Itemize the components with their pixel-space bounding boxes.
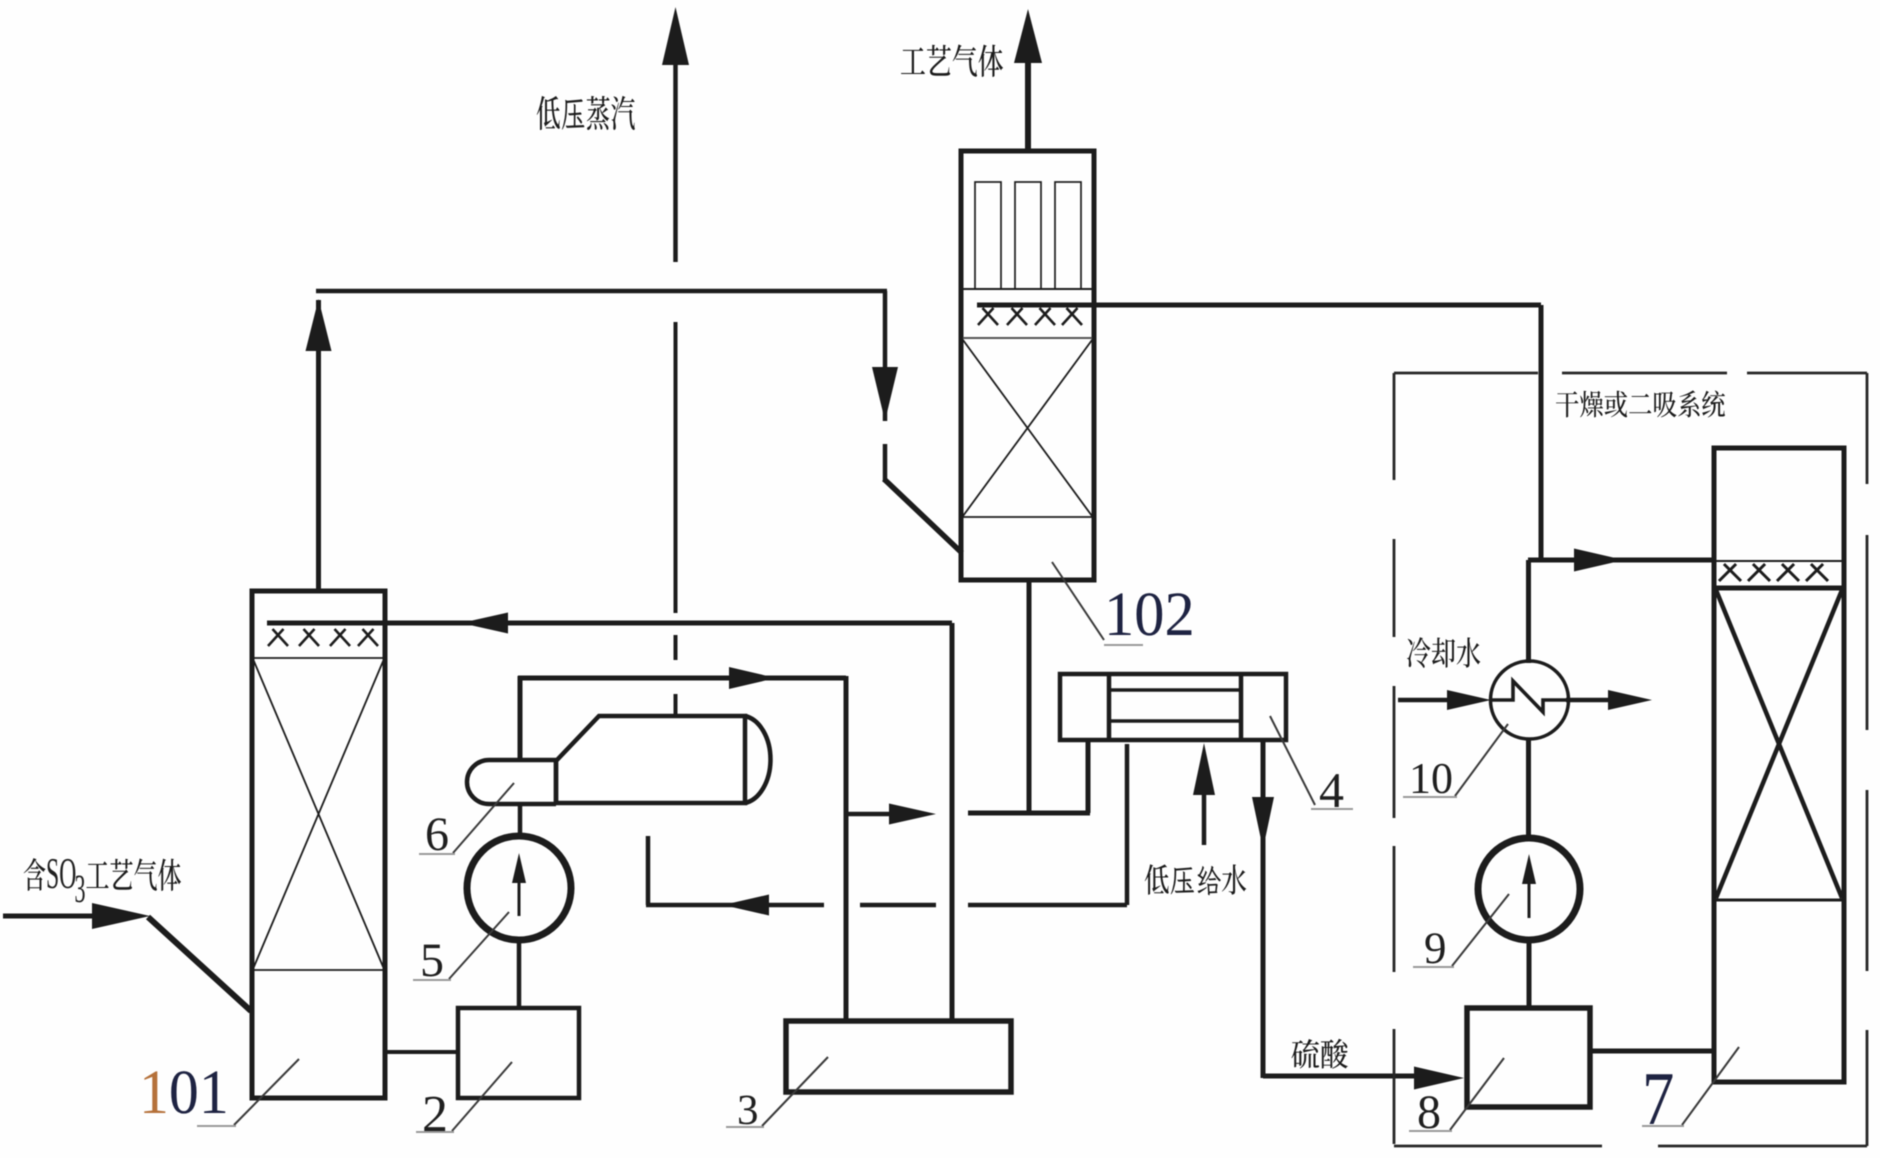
pump 9 arrow (1528, 882, 1531, 918)
tank 3 vessel (786, 1021, 1011, 1092)
wire 102 inlet arrowhead (872, 367, 898, 421)
label 5 leader (449, 912, 509, 979)
feed gas line (3, 914, 96, 919)
blower 6 dome (745, 716, 770, 803)
text 低压蒸汽 (537, 96, 560, 130)
pump 5 arrow (518, 880, 521, 916)
tower 101 packing X (253, 659, 384, 969)
tower 102 vessel (961, 151, 1094, 580)
cooling water in arrow (1398, 698, 1450, 703)
wire exchanger4 left port down (1086, 740, 1091, 813)
label 3 (739, 1096, 757, 1125)
tower 101 packing top line (252, 657, 385, 659)
pump 9 body (1478, 838, 1580, 940)
tower 102 packing top line (963, 337, 1092, 339)
wire 101-top horizontal (316, 289, 887, 294)
tower 101 spray nozzle hatches (268, 629, 284, 646)
tower 102 bottom pipe (1027, 580, 1032, 813)
tower 102 outlet pipe (1025, 62, 1031, 151)
label 5 (423, 945, 442, 977)
exchanger 4 left head (1107, 674, 1112, 740)
label 7 (1646, 1074, 1672, 1124)
label 2 leader (452, 1062, 512, 1131)
label 102 leader (1052, 562, 1104, 640)
tank 2 vessel (458, 1008, 579, 1098)
wire junction down to exchanger10 (1526, 560, 1531, 663)
dashed box right edge (1866, 373, 1869, 484)
wire blower loop top (518, 676, 846, 681)
text 工艺气体 (901, 47, 925, 74)
wire 102 inlet drop (883, 291, 888, 421)
label 6 (427, 818, 448, 850)
steam line lower dashes (674, 635, 678, 660)
wire y905 seg3 (968, 903, 1127, 908)
wire y813 into exchanger (968, 811, 1090, 816)
wire y560 arrowhead (1574, 549, 1624, 572)
text 含SO3工艺气体 (24, 858, 46, 891)
wire blower loop arrowhead (729, 667, 776, 689)
acid wire down (1261, 740, 1266, 1078)
wire y905 seg1 (646, 903, 824, 908)
tower 102 packing bottom line (963, 516, 1092, 518)
label 2 (424, 1097, 445, 1131)
tower 101 gas outlet pipe (316, 300, 321, 591)
tower 7 packing bottom line (1714, 899, 1844, 902)
tower 101 outlet arrowhead (306, 299, 332, 351)
label 9 leader (1452, 894, 1509, 966)
tower 7 packing X (1716, 590, 1842, 898)
acid wire arrowhead down (1252, 797, 1274, 849)
label 101 leader (234, 1059, 299, 1125)
steam arrowhead (662, 7, 689, 65)
wire tank8 to tower7 (1590, 1049, 1714, 1054)
cooling water out arrow (1566, 698, 1609, 703)
exchanger 4 tubes (1109, 688, 1241, 692)
label 10 leader (1455, 724, 1508, 796)
exchanger 4 right head (1239, 674, 1244, 740)
label 9 (1425, 933, 1444, 963)
wire stub vertical (646, 836, 651, 905)
wire tank2 to pump5 (517, 940, 522, 1008)
tower 7 packing top line (1714, 586, 1844, 591)
tower 101 spray arrowhead (461, 613, 508, 634)
wire loop right leg down to tank3 (844, 676, 849, 1021)
tower 101 packing bottom line (252, 969, 385, 971)
label 102 (1109, 593, 1130, 635)
text 冷却水 (1407, 637, 1430, 668)
tower 102 candle filters (975, 182, 1001, 289)
wire pump5 to blower6 (518, 760, 523, 836)
label 4 (1320, 774, 1343, 807)
feedwater arrow (1202, 793, 1207, 845)
wire exchanger10 to pump9 (1526, 740, 1531, 838)
exchanger 10 body (1491, 661, 1569, 739)
wire 102 inlet diagonal (884, 479, 962, 553)
exchanger 10 zigzag (1491, 681, 1568, 712)
tower 101 spray header line (267, 621, 952, 626)
feed gas arrowhead (92, 903, 150, 929)
steam line mid (674, 322, 678, 613)
wire y560 to tower7 (1528, 558, 1714, 563)
wire blower loop left leg (518, 676, 523, 760)
blower 6 inlet pill (467, 760, 556, 804)
tower 102 spray hatches (978, 308, 994, 325)
acid wire horizontal (1263, 1074, 1416, 1079)
blower 6 body (556, 716, 745, 803)
wire x952 down to tank3 (950, 623, 955, 1021)
dashed box left edge (1393, 373, 1396, 480)
tower 102 packing X (963, 340, 1092, 516)
steam line upper (673, 65, 678, 262)
acid wire arrowhead right (1414, 1067, 1464, 1090)
label 10 (1413, 764, 1428, 793)
pump 5 body (467, 836, 571, 940)
text 硫酸 (1292, 1039, 1320, 1069)
wire 102 gas out right (977, 303, 1541, 308)
wire pump9 to tank8 (1527, 940, 1532, 1008)
text 低压给水 (1145, 864, 1169, 894)
exchanger 4 shell (1060, 674, 1286, 740)
text 干燥或二吸系统 (1556, 391, 1579, 417)
wire y905 arrowhead (723, 895, 769, 916)
label 6 leader (453, 783, 514, 853)
label 4 leader (1270, 716, 1315, 805)
tank 8 vessel (1467, 1008, 1590, 1107)
dashed box bottom edge (1394, 1145, 1602, 1148)
tower 102 filter base line (963, 288, 1092, 290)
label 8 leader (1450, 1058, 1504, 1130)
label 7 leader (1682, 1047, 1739, 1125)
wire x1541 down (1539, 305, 1544, 560)
tower 102 outlet arrowhead (1014, 9, 1042, 63)
wire 101 to tank 2 (385, 1050, 458, 1054)
wire y905 up to exchanger (1125, 744, 1130, 905)
feed gas diagonal into 101 (148, 917, 251, 1011)
label 8 (1419, 1096, 1439, 1128)
label 3 leader (762, 1057, 828, 1126)
tower 7 spray line (1716, 560, 1842, 562)
tower 101 vessel (252, 591, 385, 1098)
wire y905 seg2 (860, 903, 936, 908)
tower 7 vessel (1714, 448, 1844, 1082)
wire arrow x846 to exchanger (846, 812, 890, 817)
dashed box top edge (1394, 372, 1538, 375)
tower 7 spray hatches (1719, 564, 1736, 581)
label 101 (144, 1071, 165, 1113)
